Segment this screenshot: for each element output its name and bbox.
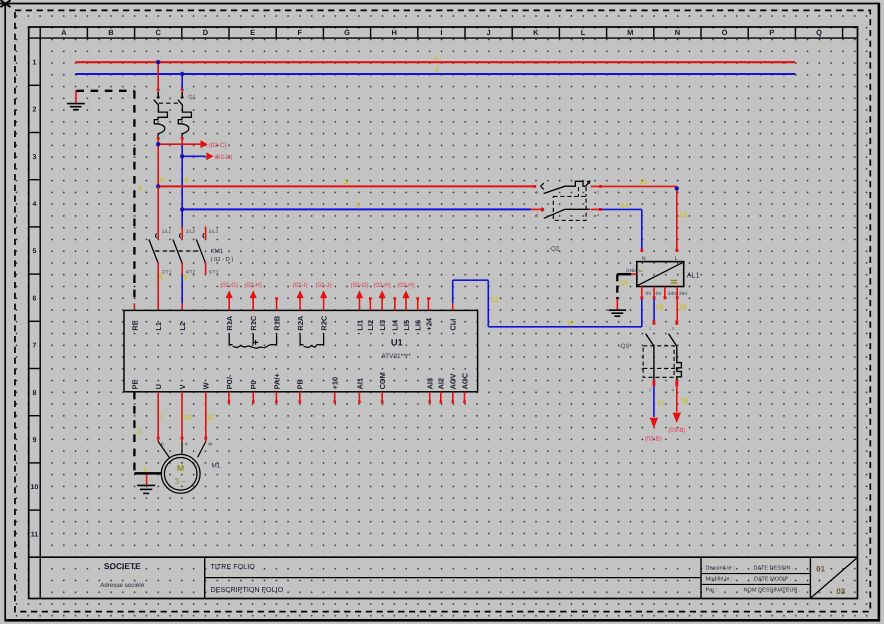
svg-text:~: ~ bbox=[637, 266, 643, 278]
svg-text:4: 4 bbox=[143, 467, 147, 474]
svg-text:(02-G): (02-G) bbox=[220, 282, 238, 289]
svg-text:LI4: LI4 bbox=[391, 319, 400, 331]
svg-text:-Q3: -Q3 bbox=[619, 343, 630, 350]
svg-text:10: 10 bbox=[184, 415, 192, 422]
svg-text:12: 12 bbox=[566, 320, 574, 327]
svg-text:PC/-: PC/- bbox=[225, 374, 234, 389]
svg-text:N: N bbox=[675, 28, 680, 37]
svg-text:.DATE MODIF .: .DATE MODIF . bbox=[753, 577, 792, 583]
svg-text:C: C bbox=[155, 28, 161, 37]
svg-text:11: 11 bbox=[31, 531, 39, 538]
svg-text:PA/+: PA/+ bbox=[272, 373, 281, 390]
svg-text:(02-H): (02-H) bbox=[373, 282, 391, 289]
svg-text:1: 1 bbox=[435, 55, 439, 62]
svg-text:A: A bbox=[61, 28, 67, 37]
svg-text:R1A: R1A bbox=[225, 315, 234, 330]
svg-text:(02-H): (02-H) bbox=[397, 282, 415, 289]
svg-text:7: 7 bbox=[32, 343, 36, 350]
svg-text:COM: COM bbox=[378, 372, 387, 389]
svg-text:01: 01 bbox=[816, 564, 825, 573]
svg-text:O: O bbox=[722, 28, 728, 37]
svg-text:(02-G): (02-G) bbox=[351, 282, 369, 289]
svg-text:D: D bbox=[203, 28, 209, 37]
svg-text:J: J bbox=[487, 28, 491, 37]
svg-text:Par :: Par : bbox=[706, 588, 718, 594]
svg-text:LI1: LI1 bbox=[355, 320, 364, 331]
svg-text:2: 2 bbox=[32, 107, 36, 114]
svg-text:3: 3 bbox=[185, 87, 188, 93]
svg-text:(02-I): (02-I) bbox=[293, 282, 308, 289]
svg-text:LI2: LI2 bbox=[366, 320, 375, 331]
svg-text:2/T1: 2/T1 bbox=[162, 270, 172, 276]
svg-text:L2: L2 bbox=[178, 322, 187, 331]
svg-text:AL1: AL1 bbox=[687, 271, 700, 280]
svg-text:14: 14 bbox=[621, 203, 629, 210]
svg-text:8: 8 bbox=[185, 177, 189, 184]
svg-text:B: B bbox=[108, 28, 114, 37]
svg-text:9: 9 bbox=[32, 437, 36, 444]
svg-text:DESCRIPTION FOLIO: DESCRIPTION FOLIO bbox=[211, 585, 284, 594]
svg-text:P: P bbox=[769, 28, 774, 37]
svg-text:8: 8 bbox=[32, 390, 36, 397]
svg-text:10: 10 bbox=[31, 484, 39, 491]
svg-text:6/T3: 6/T3 bbox=[209, 270, 219, 276]
svg-text:Q: Q bbox=[816, 28, 822, 37]
svg-text:L: L bbox=[581, 28, 586, 37]
svg-text:PB: PB bbox=[296, 379, 305, 389]
svg-text:Dessiné le :: Dessiné le : bbox=[706, 565, 736, 572]
svg-text:6: 6 bbox=[159, 275, 163, 282]
svg-text:16: 16 bbox=[656, 304, 664, 311]
svg-text:R2C: R2C bbox=[320, 315, 329, 330]
svg-text:(02-H): (02-H) bbox=[244, 282, 262, 289]
svg-text:7: 7 bbox=[159, 415, 163, 422]
svg-text:5/L3: 5/L3 bbox=[209, 229, 219, 235]
svg-text:K: K bbox=[533, 28, 539, 37]
svg-text:TITRE FOLIO: TITRE FOLIO bbox=[211, 562, 256, 571]
svg-text:2: 2 bbox=[435, 67, 439, 74]
svg-text:6: 6 bbox=[32, 295, 36, 302]
svg-text:( 02 - D ): ( 02 - D ) bbox=[211, 256, 234, 263]
svg-text:L: L bbox=[675, 256, 678, 262]
svg-text:LI5: LI5 bbox=[402, 320, 411, 331]
svg-text:M: M bbox=[627, 28, 633, 37]
svg-text:12: 12 bbox=[491, 297, 499, 304]
svg-text:(02-C): (02-C) bbox=[209, 142, 227, 149]
svg-text:LI3: LI3 bbox=[378, 320, 387, 331]
svg-text:2: 2 bbox=[161, 134, 164, 140]
svg-text:3 ~: 3 ~ bbox=[175, 477, 187, 486]
svg-text:R2A: R2A bbox=[296, 315, 305, 330]
svg-text:18: 18 bbox=[679, 304, 687, 311]
svg-text:AOV: AOV bbox=[449, 373, 458, 389]
svg-text:LI6: LI6 bbox=[414, 320, 423, 331]
svg-text:F: F bbox=[298, 28, 303, 37]
svg-text:24V: 24V bbox=[668, 291, 677, 297]
svg-text:P0: P0 bbox=[249, 380, 258, 389]
svg-text:AI2: AI2 bbox=[437, 378, 446, 390]
svg-text:24V: 24V bbox=[679, 291, 688, 297]
svg-text:U: U bbox=[154, 384, 163, 389]
svg-text:L1: L1 bbox=[154, 322, 163, 331]
svg-text:w: w bbox=[208, 442, 212, 448]
svg-text:8: 8 bbox=[356, 202, 360, 209]
svg-text:U1: U1 bbox=[391, 337, 403, 347]
svg-text:13: 13 bbox=[639, 179, 647, 186]
svg-text:+10: +10 bbox=[331, 377, 340, 390]
svg-text:1/L1: 1/L1 bbox=[162, 229, 172, 235]
svg-text:4: 4 bbox=[137, 429, 141, 436]
svg-text:(03-B): (03-B) bbox=[668, 427, 685, 434]
svg-text:5: 5 bbox=[160, 177, 164, 184]
svg-text:RE: RE bbox=[130, 320, 139, 330]
svg-text:G: G bbox=[344, 28, 350, 37]
svg-text:R1B: R1B bbox=[273, 316, 282, 331]
svg-text:SOCIETE: SOCIETE bbox=[104, 561, 141, 571]
svg-text:4: 4 bbox=[32, 201, 36, 208]
svg-text:17: 17 bbox=[657, 401, 665, 408]
svg-text:03: 03 bbox=[836, 587, 845, 596]
svg-text:1: 1 bbox=[32, 59, 36, 66]
svg-text:R1C: R1C bbox=[249, 315, 258, 330]
svg-text:N: N bbox=[642, 256, 646, 262]
svg-text:1: 1 bbox=[161, 87, 164, 93]
svg-text:W: W bbox=[202, 382, 211, 389]
svg-text:E: E bbox=[250, 28, 255, 37]
svg-text:9: 9 bbox=[183, 275, 187, 282]
svg-text:v: v bbox=[185, 442, 188, 448]
svg-text:(02-J): (02-J) bbox=[316, 282, 332, 289]
svg-text:13: 13 bbox=[679, 212, 687, 219]
svg-text:19: 19 bbox=[680, 398, 688, 405]
svg-text:PE: PE bbox=[130, 379, 139, 389]
svg-text:15: 15 bbox=[620, 280, 628, 287]
svg-text:M: M bbox=[177, 463, 184, 473]
svg-text:0V: 0V bbox=[656, 291, 663, 297]
svg-text:KM1: KM1 bbox=[211, 248, 224, 255]
svg-text:H: H bbox=[391, 28, 396, 37]
svg-text:3: 3 bbox=[138, 186, 142, 193]
svg-text:GND: GND bbox=[626, 268, 637, 273]
svg-text:(03-B): (03-B) bbox=[645, 436, 662, 443]
svg-text:0V: 0V bbox=[645, 291, 652, 297]
svg-text:AOC: AOC bbox=[460, 372, 469, 389]
svg-text:3: 3 bbox=[32, 154, 36, 161]
svg-text:(02-D): (02-D) bbox=[215, 154, 233, 161]
svg-text:NOM DESSINATEUR .: NOM DESSINATEUR . bbox=[744, 588, 802, 594]
svg-text:5: 5 bbox=[344, 179, 348, 186]
svg-text:-Q2: -Q2 bbox=[549, 246, 560, 253]
svg-text:5: 5 bbox=[32, 248, 36, 255]
svg-text:AI3: AI3 bbox=[426, 378, 435, 390]
svg-text:Q1: Q1 bbox=[188, 95, 195, 101]
svg-text:11: 11 bbox=[207, 415, 215, 422]
svg-text:Adresse société: Adresse société bbox=[100, 582, 145, 589]
svg-text:V: V bbox=[178, 384, 187, 389]
svg-text:AI1: AI1 bbox=[355, 378, 364, 390]
svg-text:DATE DESSIN .: DATE DESSIN . bbox=[754, 566, 794, 572]
svg-text:I: I bbox=[440, 28, 442, 37]
svg-text:ATV31****: ATV31**** bbox=[381, 353, 411, 360]
svg-text:M1: M1 bbox=[211, 462, 220, 469]
svg-text:Modifié le :: Modifié le : bbox=[706, 576, 733, 583]
svg-text:+24: +24 bbox=[424, 317, 433, 330]
svg-text:3/L2: 3/L2 bbox=[186, 229, 196, 235]
svg-text:CLI: CLI bbox=[449, 319, 458, 331]
